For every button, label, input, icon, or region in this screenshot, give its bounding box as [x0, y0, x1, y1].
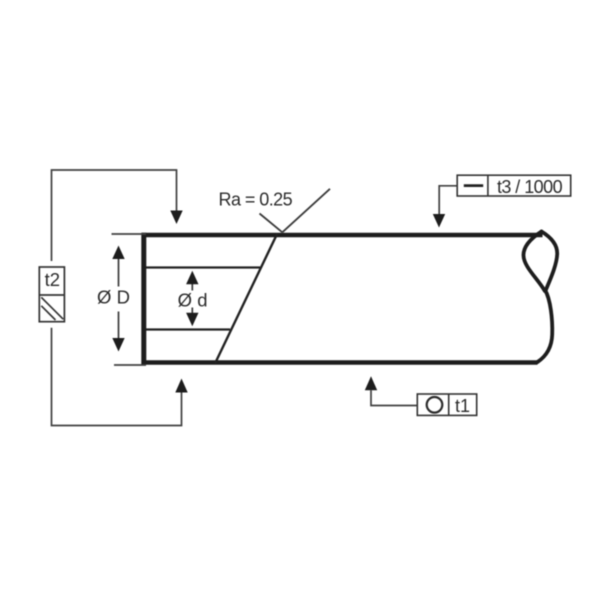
- extension line bottom: [114, 364, 146, 366]
- leader t1: [371, 390, 417, 405]
- leader t1 arrow: [365, 376, 377, 390]
- svg-text:Ø d: Ø d: [178, 290, 208, 311]
- t2 leader top arrow: [170, 211, 182, 225]
- surface finish symbol: [260, 189, 331, 233]
- extension line top: [112, 233, 147, 235]
- svg-text:t2: t2: [45, 269, 60, 290]
- inner bore line lower: [146, 328, 230, 330]
- svg-text:t1: t1: [455, 396, 470, 416]
- t2 leader top: [52, 170, 177, 261]
- leader t3: [439, 186, 459, 214]
- inner bore line upper: [146, 266, 260, 268]
- dimension d line: [191, 284, 193, 319]
- shaft left edge: [141, 233, 146, 365]
- shaft bottom line: [142, 360, 538, 365]
- t2 leader bottom arrow: [175, 379, 187, 393]
- dimension D arrow down: [112, 338, 124, 352]
- t2 hatch: [41, 297, 63, 320]
- t2 leader bottom: [52, 328, 182, 426]
- break curve at right end: [523, 232, 557, 363]
- chamfer diagonal: [215, 234, 277, 364]
- feature frame t3/1000: [457, 175, 571, 197]
- dimension D line: [118, 258, 120, 340]
- svg-text:Ra = 0.25: Ra = 0.25: [219, 190, 293, 210]
- leader t3 arrow: [433, 214, 445, 228]
- svg-text:t3 / 1000: t3 / 1000: [497, 177, 563, 197]
- t2 box: [39, 267, 64, 322]
- svg-text:Ø D: Ø D: [97, 287, 130, 308]
- dimension D arrow up: [112, 246, 124, 260]
- dimension d arrow up: [186, 271, 198, 285]
- dimension d arrow down: [186, 313, 198, 327]
- feature frame t1: [417, 394, 476, 416]
- shaft top line: [142, 233, 543, 238]
